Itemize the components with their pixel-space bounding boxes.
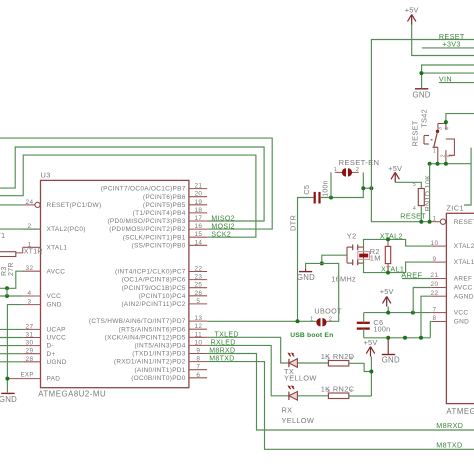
svg-text:M8RXD: M8RXD — [436, 421, 463, 430]
ground symbol at C6 — [382, 338, 400, 365]
U3 pin 29 D+ — [23, 348, 56, 358]
svg-text:7: 7 — [433, 306, 437, 313]
solder jumper RESET-EN — [334, 158, 380, 176]
U3 pin 20 (PCINT6)PB6 — [143, 191, 207, 201]
svg-text:RESET-EN: RESET-EN — [339, 158, 380, 167]
svg-text:23: 23 — [194, 274, 202, 281]
ZIC1 pin 21 AREF — [431, 272, 473, 282]
svg-text:9: 9 — [433, 256, 437, 263]
svg-text:VCC: VCC — [47, 293, 62, 300]
+5V supply symbol at LEDs — [364, 338, 378, 357]
ground symbol top right — [412, 89, 430, 100]
svg-text:XTAL1: XTAL1 — [454, 259, 474, 266]
svg-text:32: 32 — [26, 265, 34, 272]
svg-text:20: 20 — [194, 191, 202, 198]
svg-text:U3: U3 — [41, 170, 51, 179]
svg-text:(PCINT6)PB6: (PCINT6)PB6 — [143, 194, 186, 201]
U3 pin 25 (PCINT9/OC1B)PC5 — [122, 282, 207, 292]
U3 pin 6 (OC0B/INT0)PD0 — [131, 372, 207, 382]
svg-text:14: 14 — [194, 239, 202, 246]
U3 pin 31 UVCC — [23, 332, 66, 342]
U3 pin 5 (AIN2/PCINT11)PC2 — [121, 298, 207, 308]
ZIC1 pin 22 AGND — [431, 290, 474, 300]
crystal body — [358, 252, 370, 260]
resistor R3 27R (clipped at left edge) — [0, 252, 16, 276]
+5V supply symbol at RN1D — [388, 164, 402, 182]
wire TS42 bottom row — [430, 163, 472, 165]
svg-text:AVCC: AVCC — [454, 285, 473, 292]
svg-text:4: 4 — [413, 206, 416, 212]
U3 pin 26 (PCINT10)PC4 — [139, 290, 207, 300]
U3 pin 32 AVCC — [23, 265, 65, 275]
svg-text:5: 5 — [196, 298, 200, 305]
svg-text:16: 16 — [194, 223, 202, 230]
svg-text:(PD0/MISO/PCINT3)PB3: (PD0/MISO/PCINT3)PB3 — [107, 218, 185, 225]
U3 pin 17 (PD0/MISO/PCINT3)PB3 — [107, 215, 207, 225]
IC U3 ATMEGA8U2-MU body — [38, 170, 189, 398]
svg-text:24: 24 — [26, 199, 34, 206]
wire DTR vertical — [298, 198, 314, 322]
svg-text:(PCINT7/OC0A/OC1C)PB7: (PCINT7/OC0A/OC1C)PB7 — [101, 186, 186, 193]
wire M8RXD net — [207, 354, 474, 431]
svg-text:+5V: +5V — [364, 338, 378, 347]
svg-text:(T1/PCINT4)PB4: (T1/PCINT4)PB4 — [133, 210, 186, 217]
wire D- pin30 from left edge — [0, 345, 23, 347]
svg-text:27R: 27R — [8, 262, 15, 276]
wire UCAP pin27 from left edge — [0, 328, 23, 330]
pushbutton TS42 RESET — [410, 109, 454, 164]
svg-text:(INT5/AIN3)PD4: (INT5/AIN3)PD4 — [134, 343, 185, 350]
svg-text:GND: GND — [0, 395, 17, 404]
U3 pin 30 D- — [23, 340, 54, 350]
wire D+ pin29 from left edge — [0, 353, 23, 355]
wire RX LED to RN2C — [297, 395, 328, 397]
resistor RN1D 10K — [413, 175, 432, 212]
wire RN2C to +5V — [349, 395, 372, 397]
svg-text:22: 22 — [431, 290, 439, 297]
ZIC1 pin 8 GND — [431, 315, 469, 325]
svg-text:D+: D+ — [47, 351, 56, 358]
U3 pin 24 RESET(PC1/DW) — [23, 199, 102, 209]
svg-text:RESET: RESET — [410, 120, 419, 146]
wire RESET pin24 from left edge — [0, 204, 23, 206]
svg-text:5: 5 — [413, 182, 416, 188]
svg-text:30: 30 — [26, 340, 34, 347]
svg-text:MISO2: MISO2 — [211, 215, 235, 222]
svg-text:18: 18 — [194, 207, 202, 214]
wire TS42 top to right edge — [446, 114, 474, 123]
resistor R2 1M — [370, 239, 391, 272]
svg-text:EXP: EXP — [21, 371, 34, 378]
svg-text:XTAL2: XTAL2 — [380, 231, 403, 240]
wire TX LED to RN2D — [297, 362, 328, 364]
svg-text:8: 8 — [350, 355, 353, 360]
svg-text:D-: D- — [47, 343, 54, 350]
svg-text:RN1D 10K: RN1D 10K — [423, 175, 432, 212]
svg-text:(XCK/AIN4/PCINT12)PD5: (XCK/AIN4/PCINT12)PD5 — [105, 334, 186, 341]
svg-text:1M: 1M — [370, 254, 381, 263]
svg-text:(RTS/AIN5/INT6)PD6: (RTS/AIN5/INT6)PD6 — [119, 326, 186, 333]
U3 pin 14 (SS/PCINT0)PB0 — [132, 239, 208, 249]
svg-text:GND: GND — [382, 355, 400, 364]
svg-text:ATMEGA8U2-MU: ATMEGA8U2-MU — [38, 389, 106, 398]
wire RN1D to RESET net — [420, 206, 422, 222]
wire +5V drop to VCC rail — [387, 306, 389, 312]
junction pin2/RESET — [361, 186, 373, 190]
svg-text:17: 17 — [194, 215, 202, 222]
resistor RN2C 1K — [321, 384, 355, 398]
svg-text:3: 3 — [437, 127, 443, 130]
svg-text:GND: GND — [47, 302, 62, 309]
svg-text:(OC0B/INT0)PD0: (OC0B/INT0)PD0 — [131, 375, 186, 382]
wire XTAL2 net — [364, 239, 432, 247]
svg-text:PAD: PAD — [47, 376, 61, 383]
junction C5/pin1 — [329, 196, 333, 200]
svg-text:GND: GND — [412, 90, 430, 99]
junction R2 top — [386, 237, 390, 241]
svg-text:8: 8 — [196, 356, 200, 363]
U3 pin 2 XTAL2(PC0) — [23, 223, 86, 233]
ZIC1 pin 20 AVCC — [431, 281, 473, 291]
wire VCC rail — [364, 312, 432, 314]
U3 pin 18 (T1/PCINT4)PB4 — [133, 207, 207, 217]
ZIC1 pin 10 XTAL2 — [431, 240, 474, 250]
svg-text:UCAP: UCAP — [47, 327, 66, 334]
svg-text:(PCINT10)PC4: (PCINT10)PC4 — [139, 293, 186, 300]
svg-text:22: 22 — [194, 266, 202, 273]
U3 pin 16 (PDI/MOSI/PCINT2)PB2 — [109, 223, 207, 233]
wire +5V to RN1D — [395, 182, 421, 188]
svg-text:1: 1 — [310, 317, 313, 323]
U3 pin 13 (CTS/HWB/AIN6/TO/INT7)PD7 — [89, 315, 207, 325]
svg-text:(AIN2/PCINT11)PC2: (AIN2/PCINT11)PC2 — [121, 301, 185, 308]
ZIC1 pin 1 RESET — [431, 215, 474, 225]
U3 pin 15 (SCLK/PCINT1)PB1 — [123, 231, 207, 241]
wire RN2D to +5V — [349, 363, 372, 371]
junction R2 bottom — [386, 271, 390, 275]
svg-text:ZIC1: ZIC1 — [446, 203, 464, 212]
wire supply to right edge — [422, 65, 474, 88]
wire UGND pin28 from left edge — [0, 361, 23, 363]
svg-text:XTAL2: XTAL2 — [454, 243, 474, 250]
svg-text:(SCLK/PCINT1)PB1: (SCLK/PCINT1)PB1 — [123, 234, 186, 241]
wire TXLED net — [207, 337, 289, 363]
wire crystal gnd to UBOOT pin2 — [322, 263, 339, 321]
wire crystal ground — [322, 255, 347, 263]
svg-text:2: 2 — [327, 388, 330, 393]
svg-text:AGND: AGND — [454, 293, 474, 300]
svg-text:XTAL2(PC0): XTAL2(PC0) — [47, 226, 86, 233]
svg-text:+5V: +5V — [405, 6, 419, 15]
svg-text:ATMEGA328: ATMEGA328 — [446, 407, 474, 416]
svg-text:RESET: RESET — [454, 219, 474, 226]
LED TX YELLOW — [288, 352, 298, 367]
svg-text:Y1: Y1 — [0, 231, 5, 240]
svg-text:M8TXD: M8TXD — [436, 440, 462, 449]
svg-text:4: 4 — [444, 127, 450, 130]
svg-text:(PCINT9/OC1B)PC5: (PCINT9/OC1B)PC5 — [122, 285, 186, 292]
svg-text:AVCC: AVCC — [47, 268, 66, 275]
capacitor C5 100n — [302, 180, 329, 203]
svg-text:TS42: TS42 — [419, 109, 428, 128]
label TX YELLOW — [284, 367, 317, 382]
svg-text:29: 29 — [26, 348, 34, 355]
svg-text:6: 6 — [196, 372, 200, 379]
U3 pin 8 (RXD1/AIN1/INT2)PD2 — [114, 356, 207, 366]
svg-text:(PDI/MOSI/PCINT2)PB2: (PDI/MOSI/PCINT2)PB2 — [109, 226, 185, 233]
svg-text:(AIN0/INT1)PD1: (AIN0/INT1)PD1 — [134, 367, 185, 374]
svg-text:(SS/PCINT0)PB0: (SS/PCINT0)PB0 — [132, 242, 186, 249]
+5V supply symbol at VCC rail — [380, 287, 394, 307]
svg-text:10: 10 — [194, 339, 202, 346]
wire RESET-EN pin2 to RESET net — [363, 187, 371, 189]
svg-text:UBOOT: UBOOT — [314, 306, 342, 315]
svg-text:Y2: Y2 — [347, 231, 357, 240]
wire VCC pin4 from left edge — [0, 295, 23, 297]
wire +5V to LED resistors — [370, 357, 372, 396]
svg-text:UGND: UGND — [47, 359, 67, 366]
wire XTAL1 net — [364, 262, 432, 273]
svg-text:16MHz: 16MHz — [331, 274, 356, 283]
wire XTAL2 pin2 from left edge — [0, 228, 41, 230]
svg-text:GND: GND — [297, 273, 315, 282]
label RX YELLOW — [282, 405, 315, 424]
U3 pin 1 XTAL1 — [23, 241, 68, 251]
wire TS42 to RESET net — [429, 164, 431, 222]
svg-text:UVCC: UVCC — [47, 335, 67, 342]
wire AVCC pin32 — [0, 271, 24, 288]
svg-text:(CTS/HWB/AIN6/TO/INT7)PD7: (CTS/HWB/AIN6/TO/INT7)PD7 — [89, 318, 186, 325]
wire M8TXD net — [207, 362, 474, 450]
junction DTR/PD7 — [296, 319, 300, 323]
svg-text:GND: GND — [454, 319, 469, 326]
junction RN2D/+5V — [369, 370, 373, 374]
IC ZIC1 ATMEGA328 (clipped at right edge) — [446, 203, 474, 415]
svg-text:MOSI2: MOSI2 — [211, 223, 235, 230]
U3 pin 27 UCAP — [23, 323, 66, 333]
ZIC1 pin 7 VCC — [431, 306, 468, 316]
U3 pin 3 GND — [23, 299, 62, 309]
svg-text:DTR: DTR — [289, 215, 298, 231]
ground symbol at crystal — [297, 263, 322, 282]
net label VIN and wire — [439, 75, 474, 84]
svg-text:19: 19 — [194, 199, 202, 206]
svg-text:(INT4/ICP1/CLK0)PC7: (INT4/ICP1/CLK0)PC7 — [115, 269, 186, 276]
U3 pin 19 (PCINT5)PB5 — [143, 199, 207, 209]
svg-text:100n: 100n — [373, 324, 390, 333]
svg-text:AREF: AREF — [454, 276, 472, 283]
svg-text:27: 27 — [26, 323, 34, 330]
wire GND pin3 to ground — [7, 305, 22, 393]
ground symbol bottom-left — [0, 393, 17, 403]
U3 pin 23 (OC1A/PCINT8)PC6 — [122, 274, 207, 284]
U3 pin 11 (XCK/AIN4/PCINT12)PD5 — [105, 331, 207, 341]
wire C5 to RESET-EN — [321, 172, 364, 197]
U3 pin 9 (TXD1/INT3)PD3 — [132, 348, 207, 358]
svg-text:+5V: +5V — [380, 287, 394, 296]
solder jumper UBOOT — [310, 306, 342, 326]
svg-text:26: 26 — [194, 290, 202, 297]
U3 pin 10 (INT5/AIN3)PD4 — [134, 339, 207, 349]
svg-text:1: 1 — [28, 241, 32, 248]
svg-text:RESET(PC1/DW): RESET(PC1/DW) — [47, 202, 102, 209]
svg-text:YELLOW: YELLOW — [284, 374, 317, 383]
svg-text:XTAL1: XTAL1 — [47, 244, 68, 251]
U3 pin 12 (RTS/AIN5/INT6)PD6 — [119, 323, 207, 333]
svg-text:2: 2 — [441, 154, 447, 157]
svg-text:15: 15 — [194, 231, 202, 238]
svg-text:7: 7 — [350, 388, 353, 393]
svg-text:USB boot En: USB boot En — [290, 332, 333, 339]
svg-text:10: 10 — [431, 240, 439, 247]
svg-text:25: 25 — [194, 282, 202, 289]
svg-text:100n: 100n — [322, 180, 329, 197]
svg-text:1: 1 — [327, 355, 330, 360]
+5V supply symbol top — [405, 6, 419, 25]
svg-text:21: 21 — [194, 183, 202, 190]
svg-text:1: 1 — [433, 149, 436, 155]
wire MISO2 net (middle loop) — [0, 147, 264, 221]
U3 pin 28 UGND — [23, 356, 67, 366]
net label +3V3 and wire — [422, 39, 474, 48]
wire UVCC pin31 from left edge — [0, 337, 23, 339]
wire GND rail — [364, 337, 431, 339]
wire RESET-EN pin1 drop — [330, 172, 332, 197]
wire AGND drop — [421, 296, 431, 338]
crystal Y2 — [347, 231, 364, 265]
net label AREF and wire — [401, 270, 431, 279]
wire +5V top to right edge — [412, 25, 474, 56]
wire MOSI2 net (outer loop) — [0, 138, 272, 229]
svg-text:20: 20 — [431, 281, 439, 288]
U3 pin EXP PAD — [7, 371, 60, 382]
svg-text:13: 13 — [194, 315, 202, 322]
svg-text:(OC1A/PCINT8)PC6: (OC1A/PCINT8)PC6 — [122, 277, 186, 284]
svg-text:4: 4 — [28, 290, 32, 297]
wire PD7 to UBOOT — [207, 320, 317, 322]
svg-text:VCC: VCC — [454, 310, 469, 317]
U3 pin 7 (AIN0/INT1)PD1 — [134, 364, 207, 374]
svg-text:SCK2: SCK2 — [211, 232, 231, 239]
svg-text:(TXD1/INT3)PD3: (TXD1/INT3)PD3 — [132, 351, 186, 358]
wire VIN row junction — [421, 72, 474, 74]
capacitor C6 100n — [357, 313, 391, 338]
svg-text:(PCINT5)PB5: (PCINT5)PB5 — [143, 202, 186, 209]
U3 pin 22 (INT4/ICP1/CLK0)PC7 — [115, 266, 207, 276]
svg-text:31: 31 — [26, 332, 34, 339]
wire SCK2 net (inner loop) — [0, 155, 256, 237]
junction AVCC/VCC rail — [5, 286, 9, 298]
LED RX YELLOW — [288, 385, 298, 400]
svg-text:28: 28 — [26, 356, 34, 363]
wire RXLED net — [207, 345, 289, 395]
svg-text:+3V3: +3V3 — [443, 39, 461, 48]
svg-text:C5: C5 — [302, 185, 311, 195]
wire GND pin8 drop — [429, 322, 432, 338]
svg-text:YELLOW: YELLOW — [282, 416, 315, 425]
wire crystal vertical — [363, 247, 365, 263]
wire AVCC drop — [413, 288, 431, 313]
wire right edge vertical — [464, 148, 471, 205]
wire XTAL1 to R3 — [16, 247, 23, 253]
svg-text:11: 11 — [195, 331, 202, 338]
ZIC1 pin 9 XTAL1 — [431, 256, 474, 266]
svg-text:7: 7 — [196, 364, 200, 371]
svg-text:9: 9 — [196, 348, 200, 355]
wire RESET net from top right down to ZIC1 — [371, 40, 474, 222]
svg-text:RESET: RESET — [400, 212, 426, 221]
U3 pin 4 VCC — [23, 290, 61, 300]
svg-text:XT1R: XT1R — [24, 249, 43, 256]
junction crystal gnd — [320, 261, 324, 265]
resistor RN2D 1K — [321, 352, 355, 366]
svg-text:3: 3 — [28, 299, 32, 306]
svg-text:RX: RX — [282, 405, 293, 414]
U3 pin 21 (PCINT7/OC0A/OC1C)PB7 — [101, 183, 207, 193]
svg-text:21: 21 — [431, 272, 439, 279]
svg-text:8: 8 — [433, 315, 437, 322]
junction EXP pad to ground — [5, 377, 9, 381]
svg-text:+5V: +5V — [388, 164, 402, 173]
svg-text:(RXD1/AIN1/INT2)PD2: (RXD1/AIN1/INT2)PD2 — [114, 359, 186, 366]
svg-text:12: 12 — [194, 323, 202, 330]
svg-text:1: 1 — [433, 215, 437, 222]
